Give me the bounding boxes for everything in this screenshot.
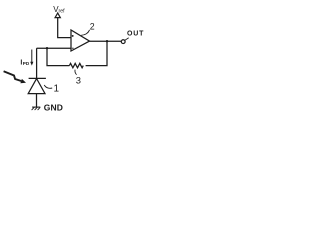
svg-text:OUT: OUT: [127, 31, 144, 38]
photodiode D1 triangle: [28, 79, 45, 94]
wire inverting node to photodiode: [36, 48, 38, 78]
light arrow into photodiode: [4, 71, 22, 81]
svg-text:1: 1: [54, 84, 60, 95]
leader for numeral 1: [44, 85, 52, 88]
op-amp - marker: [72, 47, 74, 49]
leader for numeral 2: [81, 30, 89, 36]
wire photodiode to ground: [36, 94, 38, 107]
svg-text:GND: GND: [44, 102, 63, 112]
svg-text:2: 2: [90, 21, 95, 31]
IPD current arrow: [31, 50, 33, 63]
wire inverting input: [37, 47, 71, 49]
ground hatch strokes: [32, 107, 41, 110]
IPD label: [20, 59, 29, 66]
wire op-amp output: [90, 40, 122, 42]
OUT terminal lead: [125, 38, 129, 41]
junction at output: [106, 40, 108, 42]
net label Vref: [53, 5, 65, 14]
junction at inverting node: [46, 47, 48, 49]
op-amp + marker: [72, 35, 74, 37]
ground bar: [32, 106, 40, 108]
resistor R3: [69, 63, 83, 67]
svg-text:3: 3: [76, 75, 81, 86]
wire Vref to op-amp non-inverting input: [58, 18, 71, 38]
svg-text:ref: ref: [59, 9, 66, 15]
feedback wire left: [47, 48, 69, 65]
OUT terminal circle: [121, 40, 125, 44]
svg-text:PD: PD: [23, 61, 30, 66]
op-amp U2: [71, 30, 90, 51]
photodiode D1 cathode bar: [29, 77, 46, 79]
leader for numeral 3: [75, 70, 77, 75]
feedback wire right: [86, 41, 107, 65]
Vref supply terminal: [55, 13, 60, 18]
